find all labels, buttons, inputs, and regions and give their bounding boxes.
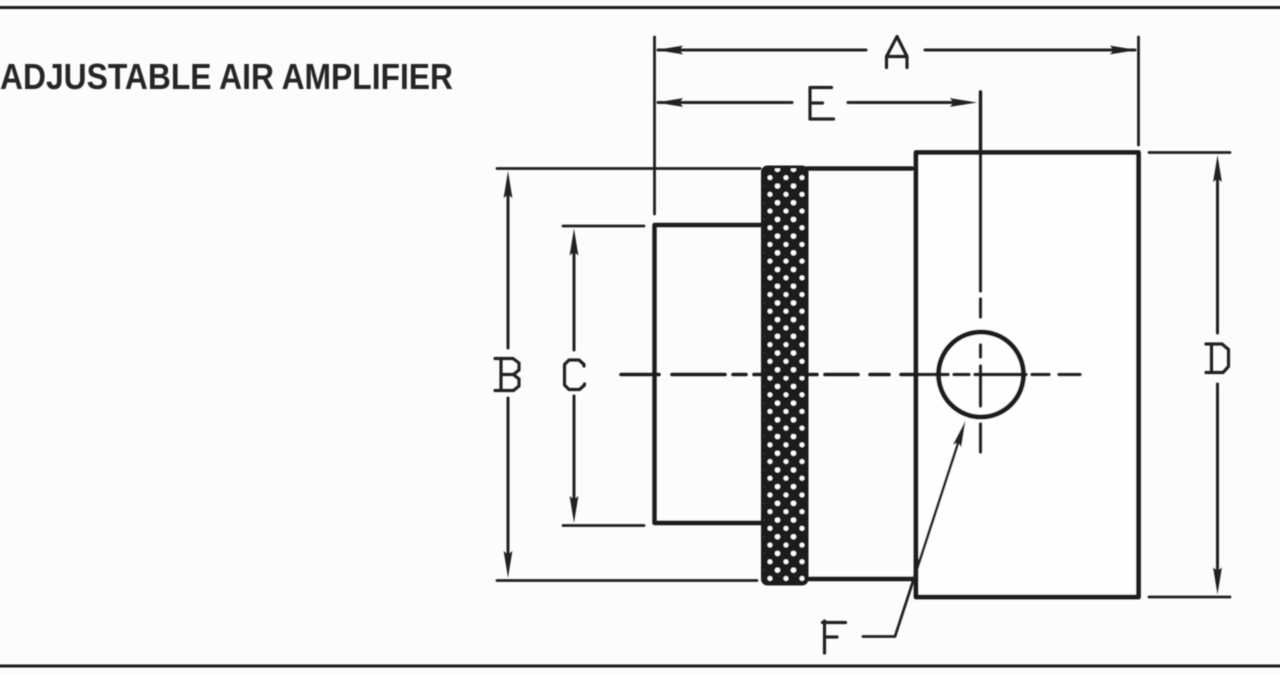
extension line (right, for A) xyxy=(1137,37,1140,145)
dimension B top arrowhead xyxy=(504,171,513,198)
label F xyxy=(823,621,846,653)
label A xyxy=(887,37,908,68)
extension line C bottom xyxy=(563,524,644,527)
extension line B bottom xyxy=(497,579,757,582)
extension line D top xyxy=(1149,151,1230,154)
label D xyxy=(1206,344,1229,373)
dimension C top arrowhead xyxy=(570,229,579,256)
leader arrowhead xyxy=(953,421,966,448)
dimension E right arrowhead xyxy=(950,98,977,107)
dimension D line xyxy=(1216,178,1219,572)
dimension B line xyxy=(507,194,510,556)
dimension C bottom arrowhead xyxy=(570,496,579,523)
extension line C top xyxy=(563,225,644,228)
extension line D bottom xyxy=(1149,596,1230,599)
dimension E left arrowhead xyxy=(656,98,683,107)
label E xyxy=(810,88,834,120)
top border rule xyxy=(0,6,1280,9)
leader line from F xyxy=(863,431,962,637)
small left cylinder rectangle xyxy=(655,225,764,523)
dimension D top arrowhead xyxy=(1213,155,1222,182)
dimension E line xyxy=(658,101,955,104)
dimension A left arrowhead xyxy=(656,46,683,55)
extension line B top xyxy=(497,167,760,170)
svg-text:ADJUSTABLE AIR AMPLIFIER: ADJUSTABLE AIR AMPLIFIER xyxy=(0,56,453,97)
knurled adjustment ring (hatch strip) xyxy=(763,167,808,584)
set screw hole circle xyxy=(939,332,1024,417)
horizontal centerline (dash-dot) xyxy=(621,373,1080,377)
dimension D bottom arrowhead xyxy=(1213,568,1222,595)
vertical centerline / E extension (dash-dot) xyxy=(979,92,982,452)
label B xyxy=(495,359,519,391)
dimension B bottom arrowhead xyxy=(504,551,513,578)
label C xyxy=(565,360,585,390)
dimension C line xyxy=(573,250,576,500)
middle body section top edge xyxy=(807,166,912,170)
extension line (left, shared by A and E) xyxy=(653,37,656,214)
bottom border rule xyxy=(0,665,1280,668)
main body block xyxy=(916,153,1139,598)
dimension A line xyxy=(658,49,1135,52)
dimension A right arrowhead xyxy=(1110,46,1137,55)
middle body section bottom edge xyxy=(807,577,912,581)
